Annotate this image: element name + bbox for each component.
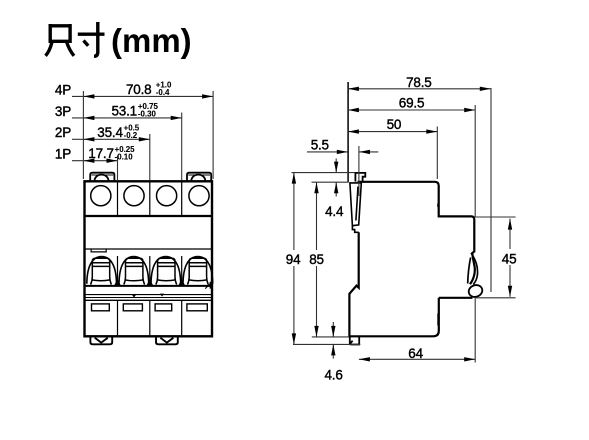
arch pole3 [151, 257, 181, 284]
dim line 69.5 [348, 109, 475, 111]
arch pole4 [183, 257, 213, 284]
dim line 2P [72, 138, 150, 140]
DIN clip loop [467, 283, 484, 298]
side view body outline [349, 182, 474, 336]
side toggle handle [350, 183, 361, 232]
dim line 50 [348, 131, 437, 133]
svg-text:35.4: 35.4 [97, 125, 123, 140]
lower face line 2 [84, 299, 213, 301]
svg-text:-0.2: -0.2 [124, 131, 138, 140]
title 尺 glyph [46, 24, 75, 56]
svg-text:69.5: 69.5 [399, 96, 424, 111]
svg-text:5.5: 5.5 [311, 137, 329, 152]
svg-text:4P: 4P [55, 82, 71, 97]
front dim extension lines [83, 91, 213, 181]
svg-text:2P: 2P [55, 125, 71, 140]
dim line 3P [72, 117, 182, 119]
pole separator 1 [117, 183, 119, 336]
svg-text:45: 45 [502, 251, 517, 266]
terminal row bottom line [84, 215, 213, 217]
front view body outline [84, 181, 213, 336]
DIN clip spring [468, 252, 478, 285]
dim 85 [316, 182, 318, 337]
terminal screw circle pole4 [189, 186, 209, 206]
lower window pole2 [123, 304, 142, 311]
dim 94 [293, 173, 295, 345]
dim line 4P [72, 95, 213, 97]
arch pole1 [87, 257, 117, 284]
lower face line 1 [84, 297, 213, 299]
toggle handle pole2 [124, 258, 145, 284]
pole separator 3 [181, 183, 183, 336]
tie bar nub 2 [160, 294, 164, 297]
svg-text:53.1: 53.1 [112, 103, 137, 118]
toggle handle pole4 [188, 258, 209, 284]
dim line 78.5 [348, 88, 491, 90]
top mounting tab pole1 [90, 173, 114, 181]
arch pole2 [119, 257, 149, 284]
svg-text:94: 94 [286, 252, 301, 267]
side bottom tab [350, 336, 359, 344]
svg-text:70.8: 70.8 [126, 82, 151, 97]
tie bar nub 1 [132, 295, 136, 298]
toggle handle pole3 [156, 258, 177, 284]
toggle handle pole1 [91, 258, 112, 284]
bottom clip tab 2 [156, 338, 178, 345]
dim 4.6 [332, 322, 334, 337]
vent notch pole1 [91, 249, 106, 252]
svg-text:85: 85 [309, 252, 324, 267]
svg-text:-0.30: -0.30 [138, 110, 157, 119]
svg-text:17.7: 17.7 [88, 146, 113, 161]
lower window pole1 [92, 304, 110, 311]
right face mold jogs [437, 204, 439, 326]
svg-text:78.5: 78.5 [406, 75, 431, 90]
dim line 1P [72, 160, 118, 162]
face line [84, 248, 213, 250]
top mounting tab pole4 [187, 173, 211, 181]
svg-text:-0.4: -0.4 [156, 88, 170, 97]
tie bar bottom line [84, 294, 213, 296]
terminal screw circle pole2 [124, 186, 144, 206]
arch junction marks [115, 280, 185, 286]
side extension lines [292, 82, 516, 363]
dim 5.5 [307, 151, 348, 153]
svg-text:(mm): (mm) [111, 22, 192, 59]
terminal screw circle pole1 [91, 186, 111, 206]
lower window pole3 [155, 304, 172, 311]
bottom clip tab 1 [90, 338, 112, 345]
handle tie bar top [84, 285, 213, 287]
dim 45 [509, 219, 511, 297]
dim 64 [359, 358, 475, 360]
svg-text:4.4: 4.4 [325, 204, 344, 219]
svg-text:1P: 1P [55, 147, 71, 162]
svg-text:3P: 3P [55, 104, 71, 119]
svg-text:-0.10: -0.10 [115, 153, 134, 162]
svg-text:50: 50 [387, 117, 402, 132]
side toggle hook [355, 173, 365, 182]
svg-text:64: 64 [408, 346, 423, 361]
svg-text:4.6: 4.6 [325, 368, 343, 383]
title 寸 glyph [78, 22, 105, 56]
tie bar right notch [210, 282, 213, 288]
lower window pole4 [187, 304, 207, 311]
pole separator 2 [149, 183, 151, 336]
dim 4.4 [335, 159, 337, 173]
terminal screw circle pole3 [157, 186, 177, 206]
